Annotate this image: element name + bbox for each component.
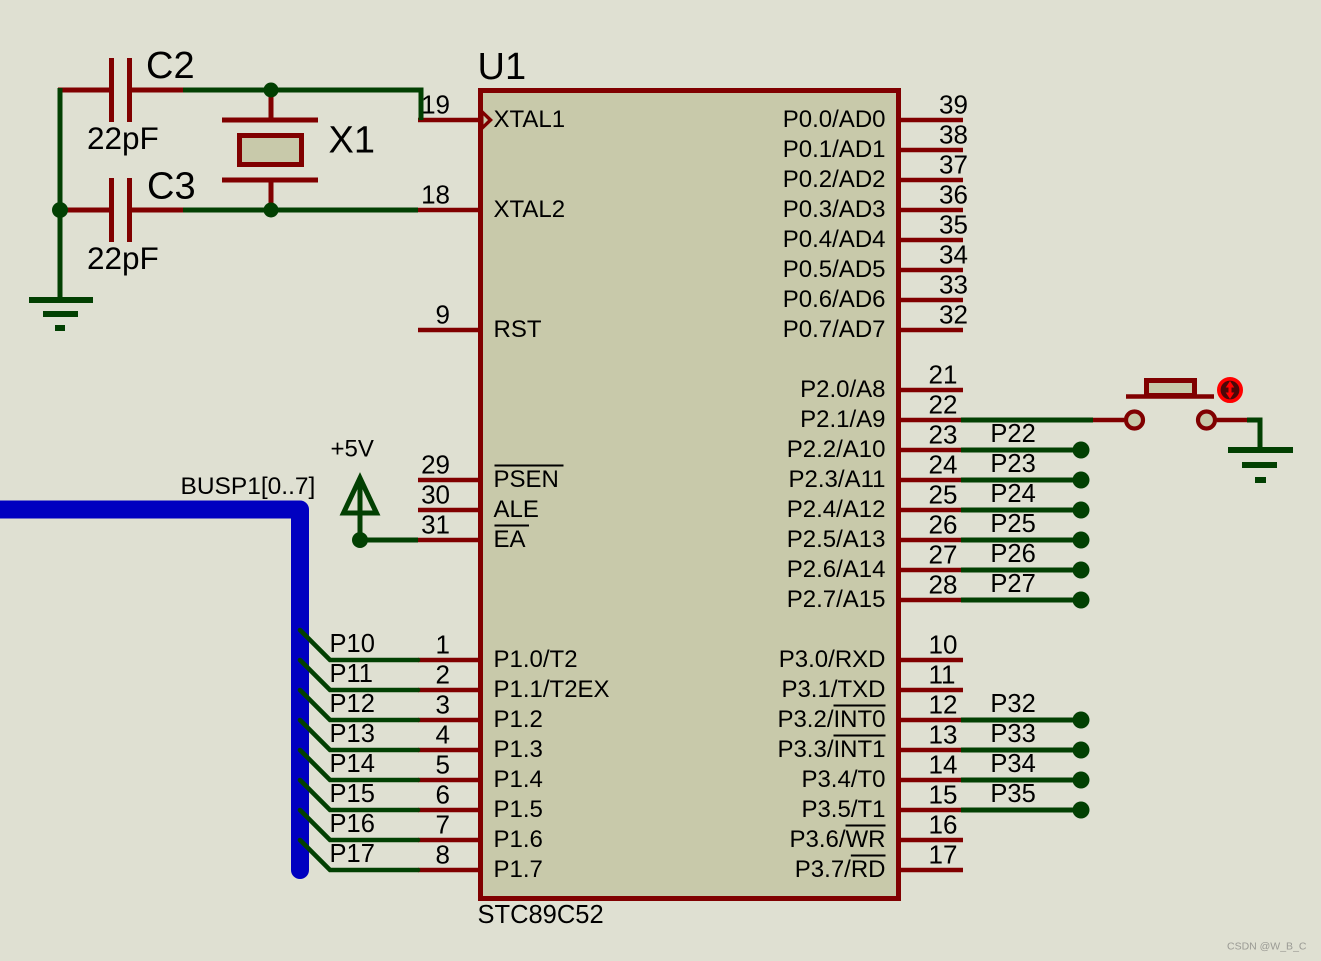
svg-text:19: 19 [421,90,450,120]
svg-text:22pF: 22pF [87,120,159,156]
svg-text:P2.1/A9: P2.1/A9 [800,406,885,433]
svg-text:4: 4 [436,720,450,750]
svg-text:10: 10 [929,630,958,660]
svg-text:P12: P12 [330,690,375,718]
svg-text:22: 22 [929,390,958,420]
svg-text:X1: X1 [329,120,375,162]
svg-text:PSEN: PSEN [494,466,559,493]
svg-text:P32: P32 [990,690,1035,718]
svg-text:P35: P35 [990,780,1035,808]
svg-text:9: 9 [436,300,450,330]
svg-text:33: 33 [939,270,968,300]
svg-text:32: 32 [939,300,968,330]
svg-text:P3.7/RD: P3.7/RD [795,856,886,883]
svg-text:P0.3/AD3: P0.3/AD3 [783,196,886,223]
svg-text:P10: P10 [330,630,375,658]
svg-text:P33: P33 [990,720,1035,748]
svg-text:2: 2 [436,660,450,690]
svg-text:P2.7/A15: P2.7/A15 [787,586,886,613]
svg-text:P25: P25 [990,510,1035,538]
svg-text:P16: P16 [330,810,375,838]
svg-text:P3.3/INT1: P3.3/INT1 [777,736,885,763]
svg-text:+5V: +5V [331,436,374,463]
svg-text:P1.5: P1.5 [494,796,543,823]
svg-text:P27: P27 [990,570,1035,598]
svg-text:P0.5/AD5: P0.5/AD5 [783,256,886,283]
svg-text:12: 12 [929,690,958,720]
svg-text:U1: U1 [478,46,527,88]
svg-text:BUSP1[0..7]: BUSP1[0..7] [181,473,316,500]
svg-text:P1.6: P1.6 [494,826,543,853]
svg-text:P17: P17 [330,840,375,868]
svg-text:P24: P24 [990,480,1035,508]
svg-text:EA: EA [494,526,526,553]
svg-text:37: 37 [939,150,968,180]
svg-text:36: 36 [939,180,968,210]
svg-text:23: 23 [929,420,958,450]
svg-text:P2.6/A14: P2.6/A14 [787,556,886,583]
svg-text:XTAL1: XTAL1 [494,106,566,133]
svg-text:39: 39 [939,90,968,120]
svg-text:30: 30 [421,480,450,510]
svg-text:P1.3: P1.3 [494,736,543,763]
svg-text:CSDN @W_B_C: CSDN @W_B_C [1227,941,1307,953]
svg-text:P3.2/INT0: P3.2/INT0 [777,706,885,733]
svg-text:11: 11 [929,660,956,690]
svg-text:P0.6/AD6: P0.6/AD6 [783,286,886,313]
svg-text:34: 34 [939,240,968,270]
svg-text:STC89C52: STC89C52 [478,901,604,929]
svg-text:P3.0/RXD: P3.0/RXD [779,646,886,673]
svg-text:P1.2: P1.2 [494,706,543,733]
svg-text:21: 21 [929,360,958,390]
svg-text:P15: P15 [330,780,375,808]
svg-text:P34: P34 [990,750,1035,778]
svg-text:8: 8 [436,840,450,870]
svg-text:P0.4/AD4: P0.4/AD4 [783,226,886,253]
svg-text:P3.1/TXD: P3.1/TXD [781,676,885,703]
svg-text:24: 24 [929,450,958,480]
svg-text:7: 7 [436,810,450,840]
svg-text:16: 16 [929,810,958,840]
svg-text:P3.6/WR: P3.6/WR [789,826,885,853]
svg-text:P2.2/A10: P2.2/A10 [787,436,886,463]
svg-text:P13: P13 [330,720,375,748]
svg-text:6: 6 [436,780,450,810]
svg-text:14: 14 [929,750,958,780]
svg-text:28: 28 [929,570,958,600]
svg-text:P22: P22 [990,420,1035,448]
svg-text:P0.1/AD1: P0.1/AD1 [783,136,886,163]
svg-text:P2.4/A12: P2.4/A12 [787,496,886,523]
svg-text:38: 38 [939,120,968,150]
svg-text:25: 25 [929,480,958,510]
svg-text:XTAL2: XTAL2 [494,196,566,223]
svg-text:P0.7/AD7: P0.7/AD7 [783,316,886,343]
svg-text:P14: P14 [330,750,375,778]
svg-text:5: 5 [436,750,450,780]
svg-text:29: 29 [421,450,450,480]
svg-text:P26: P26 [990,540,1035,568]
svg-text:P11: P11 [330,660,373,688]
svg-text:31: 31 [421,510,450,540]
svg-text:ALE: ALE [494,496,539,523]
svg-text:P1.0/T2: P1.0/T2 [494,646,578,673]
svg-text:P0.0/AD0: P0.0/AD0 [783,106,886,133]
svg-text:15: 15 [929,780,958,810]
svg-text:35: 35 [939,210,968,240]
svg-text:C2: C2 [146,45,195,87]
svg-text:P2.3/A11: P2.3/A11 [789,466,886,493]
svg-text:1: 1 [436,630,450,660]
svg-text:P0.2/AD2: P0.2/AD2 [783,166,886,193]
svg-text:P1.4: P1.4 [494,766,543,793]
svg-text:3: 3 [436,690,450,720]
svg-text:P3.5/T1: P3.5/T1 [801,796,885,823]
svg-text:RST: RST [494,316,542,343]
svg-text:P23: P23 [990,450,1035,478]
svg-text:13: 13 [929,720,958,750]
svg-text:P1.7: P1.7 [494,856,543,883]
svg-text:P3.4/T0: P3.4/T0 [801,766,885,793]
svg-text:P2.0/A8: P2.0/A8 [800,376,885,403]
svg-text:P1.1/T2EX: P1.1/T2EX [494,676,610,703]
svg-text:C3: C3 [147,166,196,208]
svg-text:18: 18 [421,180,450,210]
svg-text:22pF: 22pF [87,240,159,276]
svg-text:P2.5/A13: P2.5/A13 [787,526,886,553]
svg-text:27: 27 [929,540,958,570]
svg-text:17: 17 [929,840,958,870]
svg-text:26: 26 [929,510,958,540]
